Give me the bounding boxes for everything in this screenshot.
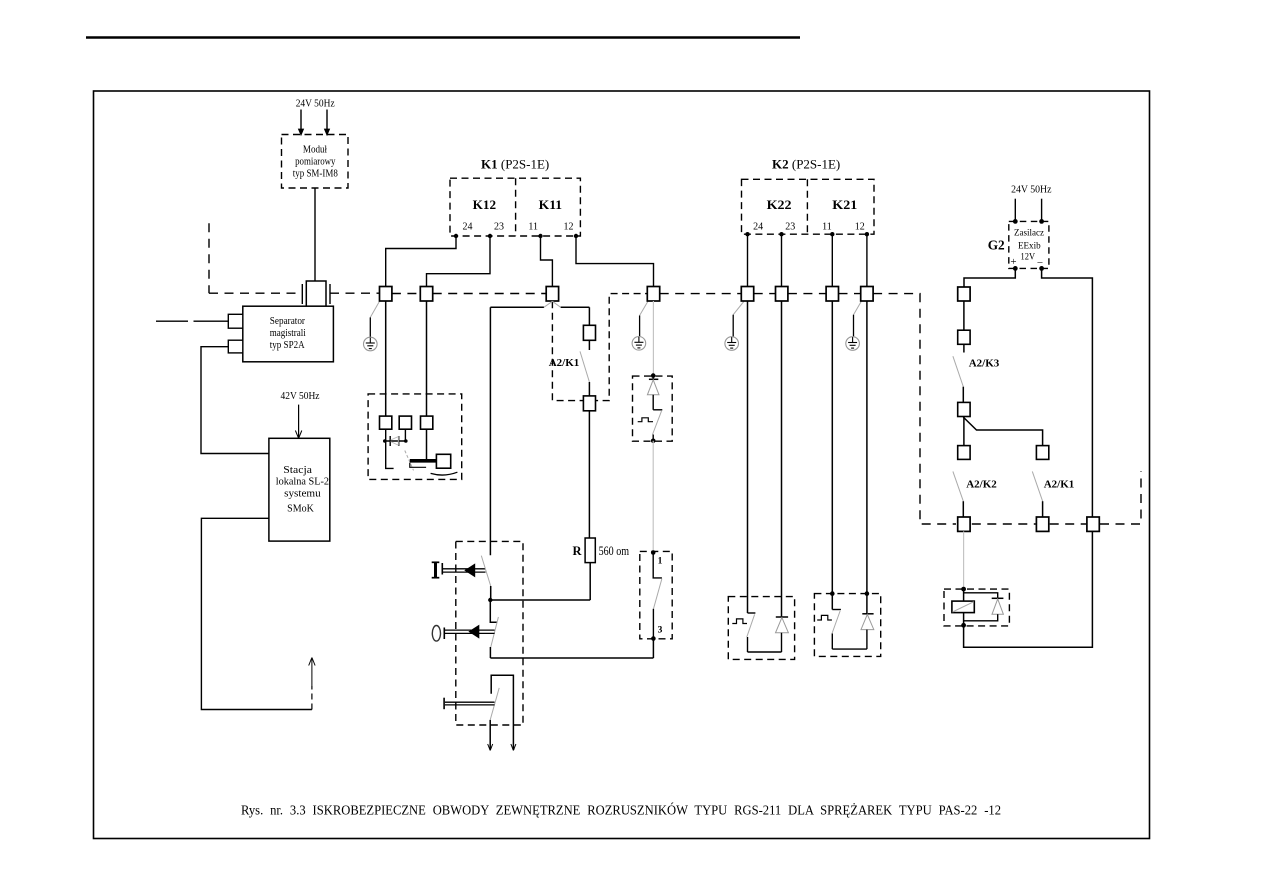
- svg-text:23: 23: [494, 222, 504, 233]
- suppressor box K2 right: [814, 594, 880, 657]
- svg-text:42V 50Hz: 42V 50Hz: [281, 390, 320, 402]
- wire split right arm: [561, 306, 590, 308]
- wire K2-24 down: [747, 234, 749, 286]
- dashed IS-barrier stub vertical left: [208, 223, 210, 293]
- terminal T7: [826, 287, 838, 302]
- button I arrow: [464, 563, 475, 577]
- wire K2-23 down: [781, 234, 783, 286]
- dashed lower bus T10-T11: [972, 523, 1036, 525]
- wire node3 to horizontal: [652, 639, 654, 659]
- wire branch to A2/K1 right: [963, 417, 1042, 446]
- relay K2 box: [742, 179, 875, 234]
- pin 24 node: [454, 234, 458, 238]
- wire pad2 down: [404, 429, 406, 441]
- wire T5 drop: [747, 301, 749, 613]
- button O arrow: [468, 625, 479, 639]
- pin 23 node: [779, 232, 783, 236]
- button O shaft double line: [445, 629, 495, 631]
- dashed bus connector to T1: [330, 292, 380, 294]
- svg-text:K11: K11: [539, 197, 563, 212]
- aux switch top bracket: [491, 675, 513, 750]
- node zasilacz top left: [1013, 219, 1018, 224]
- contact A2/K1 lower pad: [583, 396, 595, 411]
- svg-text:Rys. nr. 3.3 ISKROBEZPIECZNE: Rys. nr. 3.3 ISKROBEZPIECZNE OBWODY ZEWN…: [241, 803, 1001, 818]
- resistor R: [585, 538, 595, 563]
- pin 12 node: [865, 232, 869, 236]
- switch in right box: [832, 609, 841, 611]
- wire node horizontal: [490, 599, 590, 601]
- actuator mark right box: [817, 615, 832, 620]
- contact A2/K3 stub: [963, 344, 965, 352]
- svg-text:K1 (P2S-1E): K1 (P2S-1E): [481, 157, 549, 172]
- separator magistrali SP2A box: [243, 306, 334, 362]
- contact A2/K1 stub: [588, 340, 590, 350]
- ground below T4: [632, 302, 648, 351]
- wire K1-11 to terminal: [541, 236, 553, 287]
- zasilacz EExib box: [1009, 221, 1049, 268]
- button I blade: [481, 556, 490, 586]
- svg-text:A2/K1: A2/K1: [1044, 479, 1075, 491]
- node 1: [651, 550, 656, 555]
- pin 23 node: [488, 234, 492, 238]
- bus connector on separator: [302, 281, 330, 306]
- dashed bus T1-T2: [392, 293, 420, 295]
- svg-text:G2: G2: [988, 238, 1005, 253]
- svg-text:24: 24: [463, 222, 473, 233]
- dashed bus T2-T3: [433, 293, 547, 295]
- wire K1-12 to terminal: [576, 236, 654, 287]
- wire node to O contact: [490, 600, 497, 622]
- svg-text:24V 50Hz: 24V 50Hz: [1011, 184, 1051, 196]
- terminal T9: [958, 287, 970, 301]
- bottom join left box: [748, 651, 782, 653]
- wire O to contact3 horizontal: [490, 657, 653, 659]
- relay pad 1: [380, 416, 392, 429]
- switch enclosure dashed box: [456, 541, 523, 725]
- wire down to A2/K2: [963, 417, 965, 446]
- svg-text:−: −: [1037, 257, 1043, 269]
- contact A2/K1r upper pad: [1036, 446, 1048, 460]
- relay under-shelf: [410, 463, 426, 468]
- wire plus to T9: [964, 268, 1015, 287]
- switch in left box: [748, 612, 756, 614]
- switch in varistor box: [653, 409, 662, 411]
- terminal T2: [420, 287, 432, 302]
- svg-text:1: 1: [658, 556, 663, 566]
- dashed bus T6-T7: [788, 293, 826, 295]
- dashed riser with arrow: [311, 686, 313, 710]
- aux switch head bar: [443, 698, 445, 710]
- node zasilacz bottom plus: [1013, 266, 1018, 271]
- aux switch shaft double line: [445, 701, 495, 703]
- arrow down right: [511, 744, 514, 750]
- arrow into modul right: [324, 129, 330, 137]
- wire split left arm: [490, 306, 544, 308]
- wire K1-24 to terminal: [386, 236, 456, 287]
- separator tab upper: [228, 314, 243, 328]
- svg-text:K12: K12: [473, 197, 497, 212]
- node relay top: [961, 587, 966, 592]
- suppressor box K2 left: [728, 597, 794, 660]
- svg-text:typ SM-IM8: typ SM-IM8: [293, 169, 338, 180]
- wire O contact down: [489, 647, 491, 658]
- wire T2-pad3 down: [426, 429, 428, 461]
- wire T4 gray drop: [652, 301, 654, 375]
- terminal T8: [861, 287, 873, 302]
- terminal T12: [1087, 517, 1099, 531]
- contact A2/K2 blade: [953, 471, 963, 501]
- svg-text:typ SP2A: typ SP2A: [270, 340, 305, 351]
- wire T7 drop: [831, 301, 833, 610]
- wire 42V arrow into stacja: [298, 405, 300, 438]
- wire 50Hz into zasilacz: [1041, 199, 1043, 221]
- node I/O junction: [488, 598, 492, 602]
- contact A2/K1r blade: [1032, 471, 1042, 501]
- stacja lokalna SL-2 box: [269, 438, 330, 541]
- svg-text:A2/K1: A2/K1: [549, 357, 580, 369]
- diode in left box: [776, 617, 789, 652]
- terminal T4: [647, 287, 659, 302]
- pin 11 node: [830, 232, 834, 236]
- relay pad 2: [399, 416, 411, 429]
- svg-text:24: 24: [753, 222, 763, 233]
- node K2 right top left: [830, 591, 835, 596]
- svg-text:pomiarowy: pomiarowy: [295, 157, 336, 168]
- wire T8 drop: [866, 301, 868, 614]
- wire left drop to I button: [489, 307, 491, 555]
- varistor box below T4: [633, 376, 673, 441]
- ground below T5: [725, 302, 744, 351]
- aux switch left wire: [489, 720, 491, 750]
- pressure contact 1-3 box: [640, 551, 672, 638]
- wire blade to lower pad: [588, 382, 590, 396]
- relay pad 3: [421, 416, 433, 429]
- contact 1-3 upper wire: [653, 553, 662, 578]
- pin 12 node: [574, 234, 578, 238]
- wire A2/K3 blade to pad: [962, 387, 964, 403]
- svg-text:560 om: 560 om: [599, 543, 630, 558]
- button O glyph: [432, 626, 440, 642]
- svg-text:SMoK: SMoK: [287, 504, 314, 515]
- svg-text:K2 (P2S-1E): K2 (P2S-1E): [772, 157, 840, 172]
- wire T6 drop: [781, 301, 783, 617]
- pin 24 node: [745, 232, 749, 236]
- wire lower tab to stacja: [201, 347, 269, 454]
- K2 divider: [806, 179, 808, 234]
- wire stacja lower loop: [201, 518, 312, 709]
- wire T2 drop into relay box: [426, 301, 428, 416]
- main border frame: [94, 91, 1150, 839]
- svg-text:12: 12: [855, 222, 865, 233]
- node zasilacz top right: [1039, 219, 1044, 224]
- ground below T1: [364, 301, 380, 351]
- contact A2/K3 blade: [953, 356, 963, 387]
- wire input line to upper tab: [156, 320, 188, 322]
- actuator mark in varistor box: [638, 418, 653, 422]
- svg-text:11: 11: [528, 222, 538, 233]
- wire pad1 down: [386, 429, 394, 468]
- dashed bus T8 to corner: [873, 294, 956, 524]
- wire A2/K1r to T11: [1042, 501, 1044, 517]
- wire gray T10 to relay A2: [963, 531, 965, 589]
- button I glyph: [432, 562, 440, 578]
- K1 divider: [515, 178, 517, 236]
- diode in right box: [861, 614, 874, 649]
- node top of varistor box: [651, 373, 656, 378]
- contact A2/K2 upper pad: [958, 446, 970, 460]
- terminal T6: [776, 287, 788, 302]
- wire modul to separator connector: [314, 188, 316, 282]
- node K2 right top right: [865, 591, 870, 596]
- button I shaft double line: [443, 568, 486, 570]
- wire K2-11 down: [831, 234, 833, 286]
- svg-text:systemu: systemu: [284, 489, 321, 500]
- wire resistor to node: [589, 563, 591, 600]
- contact 1-3 blade: [654, 579, 662, 609]
- wire 24V into modul: [300, 110, 302, 135]
- wire K1-23 to terminal: [427, 236, 491, 287]
- dashed bus T7-T8: [839, 293, 861, 295]
- pin 11 node: [538, 234, 542, 238]
- wire I blade to node: [490, 586, 492, 600]
- wire A2/K1 to resistor: [588, 411, 590, 538]
- wire gray varistor to contact1: [652, 441, 654, 552]
- wire T1 drop into relay box: [385, 301, 387, 416]
- svg-text:K21: K21: [832, 197, 857, 212]
- relay A2 flyback diode branch: [964, 593, 1004, 621]
- terminal T3: [546, 287, 558, 302]
- dashed bus T4-T5: [660, 293, 742, 295]
- terminal T5: [741, 287, 753, 302]
- arrow into modul left: [298, 129, 304, 137]
- wire T9 down: [963, 301, 965, 330]
- svg-text:3: 3: [658, 625, 663, 635]
- terminal T1: [380, 287, 392, 302]
- dashed bus T5-T6: [754, 293, 776, 295]
- button O head bar: [443, 628, 445, 640]
- relay arc: [431, 472, 458, 475]
- svg-text:12: 12: [564, 222, 574, 233]
- button O blade: [491, 617, 499, 647]
- svg-text:A2/K2: A2/K2: [966, 479, 997, 491]
- svg-text:Stacja: Stacja: [283, 465, 312, 476]
- relay K1 box: [450, 178, 580, 236]
- contact A2/K1 upper pad: [583, 325, 595, 340]
- separator tab lower: [228, 340, 243, 353]
- relay pad 4: [436, 454, 450, 468]
- contact A2/K3 lower pad: [958, 402, 970, 416]
- svg-text:23: 23: [785, 222, 795, 233]
- node split below T3: [544, 301, 553, 307]
- svg-text:K22: K22: [767, 197, 792, 212]
- top rule: [86, 36, 800, 38]
- svg-text:Zasilacz: Zasilacz: [1014, 228, 1044, 238]
- dashed lower bus T11-T12: [1050, 523, 1087, 525]
- svg-text:R: R: [572, 544, 582, 558]
- wire A2/K2 to T10: [962, 501, 964, 517]
- modul pomiarowy SM-IM8 box: [282, 135, 349, 189]
- svg-text:lokalna SL-2: lokalna SL-2: [276, 477, 329, 488]
- contact A2/K3 upper pad: [958, 330, 970, 344]
- svg-text:magistrali: magistrali: [270, 328, 306, 339]
- svg-text:Separator: Separator: [270, 316, 306, 327]
- dashed detour around A2/K1 contact: [552, 294, 647, 401]
- relay coil thick bar: [410, 459, 437, 463]
- contact 1-3 lower wire: [652, 609, 654, 639]
- contact A2/K1 blade: [580, 351, 589, 382]
- relay A2 box: [944, 589, 1009, 626]
- svg-text:EExib: EExib: [1018, 241, 1041, 251]
- node zasilacz bottom minus: [1039, 266, 1044, 271]
- node bottom of varistor box: [651, 439, 656, 444]
- svg-text:11: 11: [822, 222, 832, 233]
- node relay bottom: [961, 623, 966, 628]
- wire K2-12 down: [866, 234, 868, 286]
- wire right drop to A2/K1: [588, 307, 590, 325]
- aux switch blade: [490, 688, 499, 720]
- dashed bus left of connector: [209, 292, 302, 294]
- node 3: [651, 636, 656, 641]
- terminal T10: [958, 517, 970, 531]
- terminal T11: [1036, 517, 1048, 531]
- wire 50Hz into modul: [326, 110, 328, 135]
- diode bridge in relay box: [383, 436, 408, 446]
- button I head bar: [441, 563, 443, 575]
- wire relay bottom loop to T12: [964, 531, 1093, 647]
- wire 24V into zasilacz: [1014, 199, 1016, 221]
- diode D0: [647, 376, 659, 410]
- svg-text:+: +: [1010, 256, 1016, 268]
- relay box of SL-2 station: [368, 394, 462, 480]
- arrow down left: [488, 744, 491, 750]
- relay A2 coil: [952, 589, 974, 625]
- ground below T8: [846, 302, 861, 351]
- dashed lower bus T12 to right stub: [1100, 471, 1141, 524]
- svg-text:24V 50Hz: 24V 50Hz: [296, 98, 335, 110]
- bottom join right box: [832, 648, 867, 650]
- svg-text:12V: 12V: [1021, 253, 1036, 263]
- wire minus to T12: [1042, 268, 1093, 517]
- svg-text:A2/K3: A2/K3: [969, 358, 1000, 370]
- relay blade gray: [405, 451, 414, 471]
- svg-text:Moduł: Moduł: [303, 145, 327, 156]
- actuator mark left box: [732, 619, 747, 624]
